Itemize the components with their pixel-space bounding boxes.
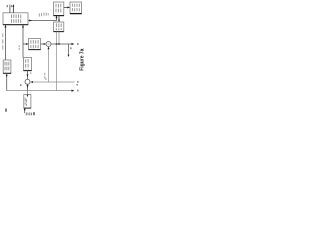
wire continuation from C2 through bus into B8 top (down arrowhead) (27, 91, 29, 98)
label right of y44 arrow (77, 43, 79, 45)
block U2 (lower centre box) (54, 22, 64, 32)
feedback bus y82 into C2 (left arrowhead) (30, 81, 74, 83)
wire into B1 top (left stub) (9, 5, 11, 13)
wire B1 right to U1 (horizontal y20.5 then up) (28, 16, 57, 22)
block L1 (left box) (3, 60, 11, 73)
label right of y82 bus end (77, 81, 78, 83)
wire U2 bottom right vertical (to y44 line) (58, 32, 60, 44)
summing circle C2 (25, 79, 30, 84)
wire vertical x23 (L2 up to B1, arrowhead up into B1) (22, 25, 24, 58)
label above wire y20.5 (39, 13, 48, 17)
svg-text:Figure 7a: Figure 7a (79, 48, 85, 70)
block B3 internal text (72, 4, 79, 13)
label left of x48.5 wire (45, 73, 46, 80)
wire vertical from B1 bottom down to L1 (arrowhead up into B1) (5, 25, 7, 60)
wire M1 to summing circle C1 (right arrowhead) (41, 43, 46, 45)
block U1 internal text (56, 4, 61, 14)
labels right of y90.5 arrow (76, 84, 78, 92)
label right of x68.5 branch (71, 47, 72, 49)
output arrow below B8 (down arrowhead with stub) (24, 108, 26, 113)
wire C2 bottom down to y90.5 bus (down arrowhead) (27, 84, 29, 90)
wire C1 output right to arrow end (51, 43, 74, 45)
block U2 internal text (56, 23, 61, 30)
caption under B8 (26, 112, 31, 115)
wire L2 down into C2 (down arrowhead) (27, 71, 29, 80)
block B8 internal text (25, 98, 26, 106)
block L1 internal text (5, 62, 9, 72)
block B3 (top-right box) (70, 2, 82, 14)
small isolated label bottom-left (5, 108, 6, 111)
label left of x5.5 wire (2, 34, 4, 50)
junction dots on y44 line (56, 43, 58, 45)
label mark left of C2 (20, 84, 21, 86)
wire out of B1 top with up arrowhead (12, 4, 14, 13)
wire U1 to U2 (down arrow) (58, 16, 60, 22)
labels above B1 (7, 5, 13, 7)
summing circle C1 (46, 42, 51, 47)
block L2 internal text (26, 59, 28, 70)
block B1 (top-left controller box) (3, 13, 28, 25)
block B8 (bottom box) (24, 95, 31, 109)
wire L1 bottom down then right along y90.5 to arrow end (6, 73, 75, 91)
wire U2 bottom left vertical (runs to bottom bus) (56, 32, 58, 91)
block U1 (upper centre box) (54, 2, 65, 16)
label left of x23 wire (18, 45, 20, 50)
block B1 internal text (12, 14, 21, 23)
block L2 (mid-left box) (24, 58, 32, 71)
wire U1 right to B3 with right arrowhead (64, 6, 70, 8)
wire into M1 (right arrowhead) (23, 43, 29, 45)
block M1 internal text (31, 40, 38, 48)
branch down from y44 at x68.5 with down arrowhead (68, 44, 70, 57)
wire up into C1 from bottom bus (arrowhead up) (48, 47, 50, 82)
block M1 (middle box) (29, 39, 41, 50)
label right of L2-C2 wire (30, 72, 32, 74)
